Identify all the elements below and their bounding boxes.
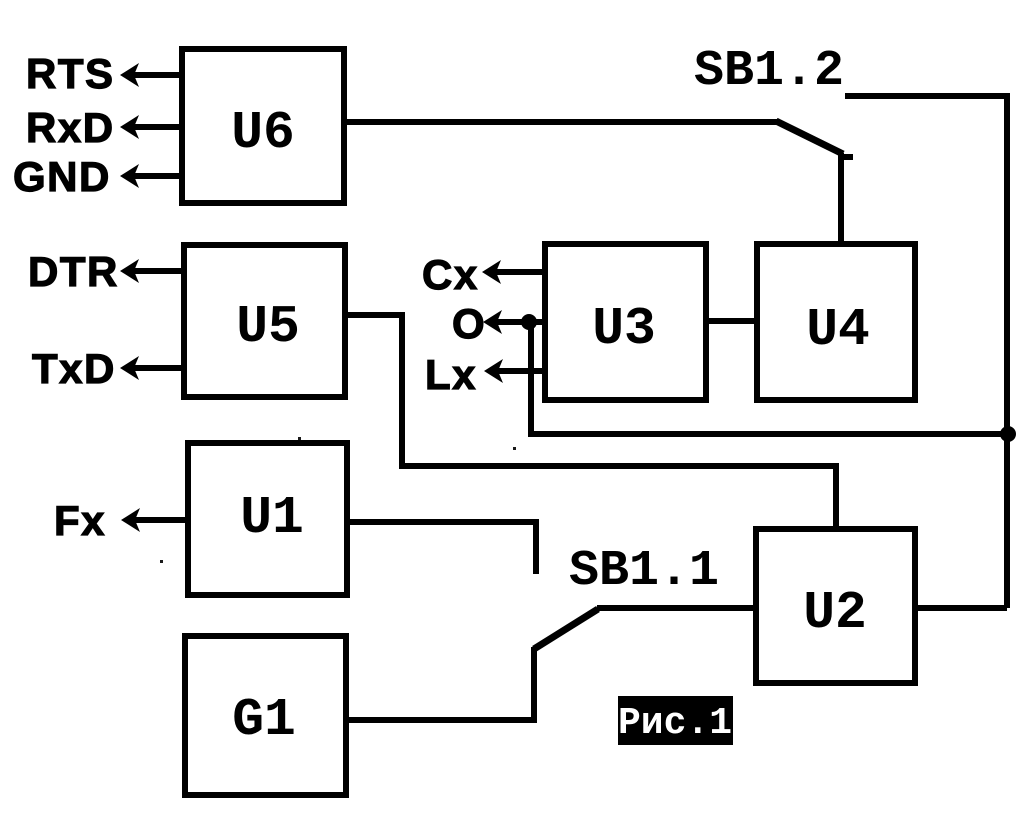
wire U3 to U4 <box>706 318 757 324</box>
svg-text:SB1.1: SB1.1 <box>569 543 719 600</box>
svg-text:U4: U4 <box>806 300 870 360</box>
svg-text:U5: U5 <box>236 297 300 357</box>
svg-text:Cx: Cx <box>422 251 479 298</box>
wire U1 to SB1.1 contact <box>347 522 536 574</box>
svg-text:U6: U6 <box>231 103 295 163</box>
svg-text:G1: G1 <box>232 690 296 750</box>
arrow RxD <box>120 115 182 139</box>
block U5 <box>184 245 345 397</box>
wire U5 to U2 <box>345 315 836 529</box>
svg-text:DTR: DTR <box>28 248 119 295</box>
svg-text:U2: U2 <box>803 583 867 643</box>
wire SB1.1 to U2 <box>597 605 756 611</box>
block U6 <box>182 49 344 203</box>
wire SB1.2 to U4 <box>838 153 844 247</box>
svg-text:RTS: RTS <box>26 50 115 97</box>
svg-text:Рис.1: Рис.1 <box>618 702 732 745</box>
wire G1 to SB1.1 <box>346 647 534 720</box>
arrow Lx <box>484 359 545 383</box>
wire SB1.2 to right bus <box>845 96 1007 608</box>
arrow RTS <box>120 63 182 87</box>
arrow DTR <box>120 259 184 283</box>
arrow GND <box>120 164 182 188</box>
node right bus junction dot <box>1000 426 1016 442</box>
block U3 <box>545 244 706 400</box>
wire O node to right bus <box>531 322 1007 434</box>
wire U6 to SB1.2 <box>344 119 778 125</box>
switch SB1.2 contact tick <box>840 154 853 160</box>
block G1 <box>185 636 346 795</box>
svg-text:Fx: Fx <box>54 497 106 544</box>
svg-text:GND: GND <box>13 153 111 200</box>
svg-text:O: O <box>452 300 486 347</box>
arrow TxD <box>120 356 184 380</box>
svg-text:SB1.2: SB1.2 <box>694 43 844 100</box>
switch SB1.1 arm <box>534 609 598 649</box>
svg-text:U1: U1 <box>240 488 304 548</box>
caption Рис.1 <box>618 696 733 745</box>
svg-text:U3: U3 <box>592 299 656 359</box>
arrow Fx <box>121 508 188 532</box>
arrow Cx <box>482 260 545 284</box>
svg-text:RxD: RxD <box>26 104 115 151</box>
node O junction dot <box>521 314 537 330</box>
arrow O <box>483 310 545 334</box>
block U4 <box>757 244 915 400</box>
block U2 <box>756 529 915 683</box>
block U1 <box>188 443 347 595</box>
svg-text:Lx: Lx <box>425 351 477 398</box>
switch SB1.2 arm <box>776 121 843 154</box>
svg-text:TxD: TxD <box>32 345 116 392</box>
wire U2 to right bus <box>915 605 1007 611</box>
